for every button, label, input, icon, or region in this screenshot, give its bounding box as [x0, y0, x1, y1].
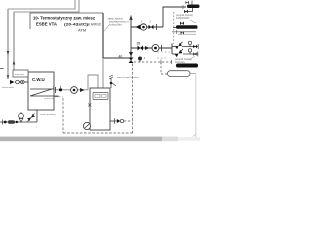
- wire: up to radiator 1: [163, 7, 186, 27]
- vent valve above R1: [186, 1, 190, 4]
- junction tick circuit 2: [161, 45, 163, 51]
- wire: tank bottom drop: [36, 110, 38, 122]
- svg-text:zimna woda: zimna woda: [2, 87, 14, 89]
- wire: faint drop from vessel: [195, 74, 197, 138]
- filter/strainer (dark capsule): [8, 120, 15, 124]
- wire: cold feed bottom: [0, 121, 37, 123]
- CWU tank: [28, 72, 54, 110]
- check valve on cold inlet (black triangle): [10, 80, 15, 84]
- valve above R2: [180, 22, 184, 26]
- wire: R2 to riser x172: [173, 27, 177, 29]
- radiator R3 (black bar): [176, 64, 198, 68]
- arrow above valve 40: [129, 52, 133, 57]
- safety valve group: [19, 113, 24, 118]
- valve on boiler return: [117, 119, 121, 123]
- svg-text:mieszacz: mieszacz: [15, 74, 24, 76]
- tick on coil loop: [55, 87, 57, 93]
- water meter circles: [16, 80, 20, 84]
- R1 bottom connection: [185, 8, 193, 12]
- svg-text:funkcja filtra: funkcja filtra: [109, 24, 122, 27]
- arrow: flow down into check valve: [7, 75, 9, 79]
- dashed boundary: left vertical: [62, 98, 64, 133]
- dashed pipe: riser to vessel: [161, 62, 168, 74]
- pump P1: [140, 24, 146, 30]
- dashed pipe: boiler return to boundary: [124, 120, 133, 122]
- dashed riser (existing): [173, 12, 175, 44]
- row A: pipe to radiator: [182, 46, 199, 48]
- thermometer on dashed pipe: [138, 57, 142, 61]
- floor band: [0, 137, 162, 142]
- arrow: flow up on hot pipe: [13, 60, 16, 64]
- wire: right edge of label box / pipe down: [102, 13, 104, 58]
- svg-text:C.W.U: C.W.U: [32, 77, 45, 82]
- svg-text:10- Termostatyczny zaw. miesz: 10- Termostatyczny zaw. miesz: [33, 16, 96, 21]
- svg-text:39: 39: [137, 41, 141, 45]
- pump P3: [71, 87, 78, 94]
- ball valve (black dot): [59, 88, 62, 91]
- svg-text:22/600/1000: 22/600/1000: [176, 17, 190, 20]
- arrow on circuit 2: [145, 46, 149, 50]
- boiler control panel: [93, 93, 108, 100]
- svg-text:ESBE VTA: ESBE VTA: [36, 22, 57, 27]
- radiator R1 (black bar): [187, 5, 200, 9]
- svg-text:zawor spustowy: zawor spustowy: [40, 113, 56, 116]
- wire: right riser: [171, 44, 173, 55]
- wire: hot water pipe (gray, left/top elbow): [13, 12, 15, 70]
- tick at left edge: [2, 120, 4, 125]
- row B: valve black: [193, 52, 196, 56]
- row A: thermostatic head: [188, 41, 191, 44]
- check valve circuit 1: [136, 25, 141, 30]
- valve under R1: [184, 10, 188, 13]
- small box (mixing valve) above tank: [13, 70, 28, 77]
- wire: boiler return right: [110, 120, 117, 122]
- safety valve on boiler top: [110, 78, 112, 88]
- label box: mixing valve note: [30, 13, 103, 29]
- valve (black bowtie) circuit 1: [149, 25, 154, 30]
- svg-text:(20-43stC): (20-43stC): [64, 22, 89, 27]
- svg-text:ATM: ATM: [78, 27, 86, 32]
- dashed stub to tank coil return: [54, 96, 59, 98]
- radiator R2 (black bar): [176, 25, 198, 29]
- wire: circuit 1 supply: [131, 26, 163, 28]
- arrow: flow right: [80, 88, 85, 92]
- dashed stubs near rows: [157, 52, 170, 58]
- row B: thermostatic head: [188, 49, 191, 52]
- wire: main riser: [130, 16, 132, 63]
- valve 40 (black bowtie on riser): [129, 58, 134, 64]
- wire: coil loop to boiler: [54, 75, 98, 90]
- callout: check valve note: [104, 25, 109, 31]
- dashed pipe: to expansion vessel: [134, 61, 172, 63]
- row B: radiator valve: [174, 50, 182, 57]
- svg-text:lub AFRISO: lub AFRISO: [87, 23, 102, 27]
- x mark on boiler left edge: [88, 104, 91, 107]
- svg-text:zawor bezpieczenstwa: zawor bezpieczenstwa: [117, 76, 140, 79]
- valve 39 (black bowtie): [138, 46, 144, 51]
- dashed boundary: bottom horizontal: [63, 132, 133, 134]
- pump P2: [152, 45, 159, 52]
- wire: cold water pipe (gray, left/top elbow): [7, 9, 9, 79]
- boiler pump (circle bottom-left): [83, 122, 90, 129]
- wire: gray pipe down to boiler: [102, 58, 104, 88]
- wire: cold inlet to tank: [15, 81, 28, 83]
- junction tick: [156, 24, 158, 30]
- dashed boundary: right vertical: [132, 64, 134, 134]
- boiler box: [90, 88, 110, 130]
- arrow: riser flow up: [129, 15, 132, 20]
- coil heat exchanger: [30, 89, 59, 96]
- radiator R2 lower pipes (thin pair): [172, 31, 196, 33]
- wire: left edge stub: [0, 68, 4, 70]
- drain valve (angled bowtie with arrow): [27, 114, 35, 121]
- row A: radiator valve: [175, 43, 182, 49]
- svg-text:cyrkulacja: cyrkulacja: [44, 97, 55, 100]
- ball valve (black dot) 2: [16, 121, 18, 123]
- row A: valve black: [193, 45, 197, 49]
- wire: circuit 2 supply: [131, 47, 172, 49]
- row B: pipe to radiator: [183, 53, 198, 55]
- wire: from label box pipe to valve 40: [103, 57, 129, 59]
- expansion vessel (white capsule): [168, 71, 191, 77]
- valve on R2 lower pipe: [181, 31, 185, 34]
- ball valve (black dot): [4, 121, 7, 124]
- arrow: flow down on cold pipe: [7, 51, 10, 55]
